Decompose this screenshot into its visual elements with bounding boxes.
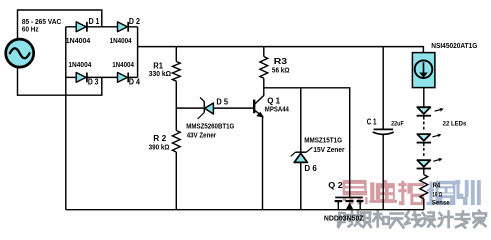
svg-text:56 kΩ: 56 kΩ [272, 68, 290, 75]
svg-text:D 6: D 6 [304, 164, 317, 173]
svg-text:MPSA44: MPSA44 [265, 106, 289, 113]
svg-text:15V Zener: 15V Zener [313, 147, 344, 154]
svg-text:NSI45020AT1G: NSI45020AT1G [431, 41, 477, 50]
svg-text:D 2: D 2 [129, 17, 140, 26]
svg-text:R1: R1 [153, 62, 163, 71]
svg-text:D 5: D 5 [216, 98, 228, 107]
svg-text:1N4004: 1N4004 [112, 60, 134, 69]
svg-text:390 kΩ: 390 kΩ [149, 144, 170, 151]
svg-text:NDD03N50Z: NDD03N50Z [324, 213, 364, 222]
svg-text:1N4004: 1N4004 [68, 60, 91, 69]
svg-text:D 1: D 1 [89, 17, 100, 26]
svg-text:22uF: 22uF [391, 120, 404, 127]
svg-text:R4: R4 [433, 182, 441, 189]
svg-text:MMSZ15T1G: MMSZ15T1G [304, 138, 342, 145]
svg-text:10 Ω: 10 Ω [432, 191, 442, 198]
svg-text:43V Zener: 43V Zener [187, 132, 217, 139]
svg-text:Q 1: Q 1 [267, 96, 280, 105]
svg-text:C 1: C 1 [367, 117, 377, 126]
svg-text:D 4: D 4 [129, 78, 140, 87]
svg-text:MMSZ5260BT1G: MMSZ5260BT1G [186, 124, 234, 131]
svg-text:1N4004: 1N4004 [110, 36, 132, 45]
svg-text:22 LEDs: 22 LEDs [443, 121, 467, 128]
svg-text:R3: R3 [274, 57, 288, 66]
svg-text:R 2: R 2 [153, 134, 166, 143]
svg-text:60 Hz: 60 Hz [22, 24, 39, 33]
svg-text:Sense: Sense [432, 200, 450, 207]
svg-text:330 kΩ: 330 kΩ [149, 71, 172, 78]
svg-text:D 3: D 3 [88, 78, 99, 87]
svg-text:1N4004: 1N4004 [66, 36, 91, 45]
svg-text:Q 2: Q 2 [328, 181, 343, 190]
